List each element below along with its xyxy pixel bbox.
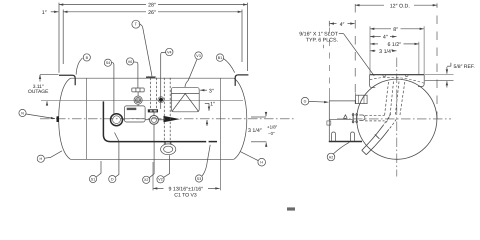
balloon V2	[157, 176, 164, 183]
interior vertical line right (also ext for bottom dim)	[219, 78, 221, 190]
balloon T	[132, 20, 140, 28]
dip tube 2 (hidden)	[164, 78, 170, 144]
dimension 8"	[370, 27, 424, 33]
dimension 4" left	[329, 21, 354, 28]
svg-text:T: T	[135, 22, 138, 27]
hidden pipe horizontal pair	[365, 115, 385, 121]
svg-text:A2: A2	[329, 155, 333, 159]
balloon N	[19, 109, 26, 116]
dimension 3 1/4 +1/8 -0	[248, 112, 278, 147]
dimension 9 13/16 extension left	[152, 162, 154, 190]
leader N	[26, 114, 55, 119]
extension 8" left	[369, 26, 371, 74]
svg-text:12″ O.D.: 12″ O.D.	[390, 3, 410, 9]
balloon S1	[89, 175, 96, 182]
plate slot right	[351, 132, 355, 141]
svg-text:1″: 1″	[210, 101, 215, 107]
extension 6 1/2 right	[418, 42, 420, 74]
interior vertical line left	[85, 78, 87, 159]
svg-text:8″: 8″	[393, 27, 398, 33]
bottom text fragment	[287, 207, 295, 210]
plate centerline stub	[329, 118, 352, 120]
leader S3	[202, 145, 210, 176]
phantom line left	[354, 4, 356, 104]
balloon A2	[327, 153, 335, 161]
outage dimension	[28, 75, 58, 106]
wire flange to data plate	[123, 119, 125, 121]
balloon V4	[166, 48, 173, 55]
leader V2	[164, 155, 170, 177]
liquid level line	[41, 99, 243, 101]
balloon G	[301, 97, 309, 105]
phantom line right	[436, 16, 438, 120]
svg-text:G: G	[304, 100, 307, 104]
svg-text:−0″: −0″	[268, 131, 275, 136]
mounting bar top (bold)	[370, 74, 425, 76]
dimension 6 1/2"	[370, 42, 419, 48]
weld triangle	[344, 115, 348, 119]
extension line 26 right	[241, 10, 243, 63]
dimension 5/8 REF	[425, 63, 475, 88]
hidden pad outline	[149, 75, 155, 78]
relief valve box	[171, 87, 199, 112]
svg-text:D: D	[111, 178, 114, 182]
leader T	[139, 24, 152, 77]
svg-text:V3: V3	[196, 54, 200, 58]
dimension 4" right	[370, 35, 397, 41]
mounting bar left tab	[370, 75, 376, 88]
balloon B1	[216, 54, 223, 61]
dimension 12" O.D.	[355, 3, 437, 9]
leader H	[45, 151, 62, 158]
leader X2	[149, 142, 154, 178]
dimension 9 13/16	[153, 186, 220, 198]
svg-text:V2: V2	[158, 178, 162, 182]
weld tick on tube	[115, 133, 120, 142]
extension line 28 left	[58, 3, 60, 73]
balloon H	[37, 155, 44, 162]
dimension 3 1/4"	[370, 49, 396, 55]
dimension 1"	[205, 101, 215, 126]
tank end circle	[357, 79, 437, 159]
svg-text:V6: V6	[128, 60, 132, 64]
dimension 28" line	[59, 4, 146, 6]
svg-text:3 1/4″: 3 1/4″	[379, 49, 393, 55]
flange outlet bracket	[359, 115, 365, 120]
extension line slot corner	[328, 28, 330, 89]
dashed arc above circle	[370, 77, 424, 83]
manway flange (bold circle)	[111, 114, 123, 126]
svg-text:1″: 1″	[42, 10, 47, 16]
wire data plate to valve C1	[145, 119, 149, 121]
balloon H right	[258, 158, 266, 166]
svg-text:V4: V4	[167, 50, 171, 54]
bar slot mark left	[383, 75, 386, 76]
svg-text:28″: 28″	[148, 3, 156, 9]
bracket plate top	[329, 100, 355, 102]
balloon S4	[104, 59, 111, 66]
leader H right	[241, 152, 259, 161]
dimension 1" callout	[42, 10, 59, 16]
multivalve handle	[132, 88, 144, 92]
dimension 28" text	[148, 3, 156, 9]
tank left head	[59, 78, 71, 159]
fill chute (double line)	[362, 125, 389, 155]
leader D	[115, 142, 119, 177]
leader A2	[333, 142, 349, 154]
bracket plate left	[328, 101, 330, 142]
balloon V3	[195, 52, 202, 59]
extension line 26 left	[62, 10, 64, 65]
balloon S3	[195, 175, 202, 182]
tank shell bottom	[71, 158, 234, 160]
leader S4	[111, 63, 114, 114]
dark gauge fitting	[158, 97, 164, 103]
svg-text:3.11″: 3.11″	[33, 84, 44, 90]
balloon X2	[143, 176, 150, 183]
svg-text:C1 TO V3: C1 TO V3	[174, 192, 197, 198]
svg-text:S4: S4	[106, 61, 110, 65]
leader S1	[96, 161, 101, 177]
svg-text:S1: S1	[91, 177, 95, 181]
bar slot mark right	[405, 75, 408, 76]
liquid withdrawal tube (bold)	[103, 101, 206, 141]
ASME label (dark)	[148, 109, 158, 112]
tank right head	[234, 78, 247, 159]
small block on plate edge	[327, 121, 331, 125]
extension line 28 right	[246, 3, 248, 71]
svg-text:B1: B1	[218, 56, 222, 60]
svg-text:4″: 4″	[383, 35, 388, 41]
drain fitting oval	[161, 142, 176, 155]
end view horizontal centerline	[337, 118, 451, 120]
balloon V6	[126, 58, 133, 65]
leader B	[76, 58, 82, 75]
svg-text:H: H	[39, 157, 42, 161]
multivalve body	[134, 92, 142, 106]
dimension 26" line	[63, 11, 146, 13]
svg-text:X2: X2	[144, 178, 148, 182]
fill pipe elbow right (bold)	[235, 75, 248, 86]
extension 8" right	[423, 26, 425, 74]
leader B1	[223, 58, 235, 72]
hidden pipe riser bundle	[385, 82, 405, 124]
top pad fitting (bold tick)	[146, 76, 155, 78]
svg-text:5/8″ REF.: 5/8″ REF.	[454, 64, 475, 70]
svg-text:OUTAGE: OUTAGE	[28, 89, 49, 95]
tank centerline	[40, 118, 296, 120]
dimension 26" text	[148, 10, 156, 16]
balloon B	[83, 54, 90, 61]
svg-text:B: B	[86, 56, 89, 60]
fitting on head (bold tick)	[57, 116, 60, 122]
bracket plate bottom (bold)	[329, 141, 362, 143]
svg-text:TYP. 6 PLCS.: TYP. 6 PLCS.	[306, 38, 338, 44]
valve flange on circle	[352, 113, 358, 123]
leader G	[309, 100, 329, 103]
svg-text:6 1/2″: 6 1/2″	[387, 42, 401, 48]
svg-text:+1/8″: +1/8″	[267, 125, 278, 130]
svg-text:S3: S3	[197, 177, 201, 181]
dip tube 1 (hidden)	[151, 78, 157, 109]
svg-text:H: H	[260, 161, 263, 165]
tube segment right	[209, 141, 217, 143]
dimension 3"	[200, 88, 214, 94]
fill pipe elbow left (bold)	[59, 75, 75, 85]
svg-text:N: N	[21, 111, 24, 115]
valve C1	[150, 113, 159, 142]
leader V4	[161, 52, 166, 109]
svg-text:3″: 3″	[209, 88, 214, 94]
balloon D	[109, 176, 116, 183]
tank shell top	[71, 77, 234, 79]
hidden pipe down-left pair	[384, 114, 397, 130]
svg-text:3 1/4″: 3 1/4″	[248, 128, 262, 134]
svg-text:4″: 4″	[340, 22, 345, 28]
leader V6 / valve stem	[134, 62, 138, 89]
leader V3	[185, 59, 197, 87]
plate slot left	[332, 132, 336, 141]
data plate	[124, 106, 145, 122]
slot note text	[299, 31, 339, 48]
flow arrow	[159, 116, 181, 122]
end view vertical centerline	[396, 58, 398, 177]
slot note leader	[339, 33, 344, 35]
svg-text:9/16″ X 1″ SLOT: 9/16″ X 1″ SLOT	[299, 31, 339, 37]
relief fitting square	[356, 93, 368, 104]
svg-text:26″: 26″	[148, 10, 156, 16]
mounting bar right tab	[418, 75, 424, 87]
